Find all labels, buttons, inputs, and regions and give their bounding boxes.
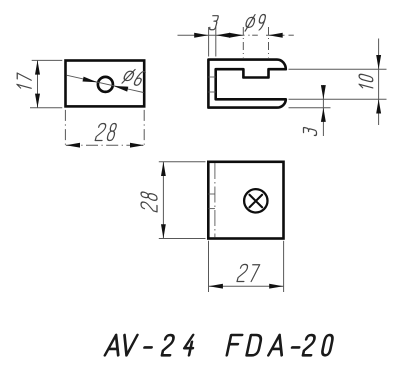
dim text 28 [95, 124, 117, 141]
extension line 28b bottom [159, 238, 206, 240]
dim text 17 [17, 73, 31, 91]
cross mark in circle [250, 195, 263, 208]
dimension line dot segment [248, 34, 249, 36]
leader line diameter 6 [67, 75, 144, 92]
fastening circle [244, 189, 267, 212]
dim text 3 top [209, 16, 219, 30]
extension line 28 left [64, 110, 66, 147]
arrow dia9 outside right [269, 33, 283, 38]
extension line 3b bottom [289, 107, 331, 109]
bend tick lower view3 [209, 208, 215, 210]
extension line 10 bottom [289, 98, 387, 100]
leader arrow left [83, 77, 98, 83]
arrow 17 up [35, 60, 40, 74]
extension line diameter 9 right [268, 27, 270, 58]
dimension line 27 [209, 285, 284, 287]
arrow 27 left [209, 284, 223, 289]
dimension line tail dash [289, 34, 294, 36]
dim text 3 right [303, 127, 316, 136]
arrow 28 left [66, 143, 80, 148]
dimension line right segment [266, 34, 285, 36]
dimension line 17 [37, 60, 39, 107]
arrow 27 right [269, 284, 283, 289]
dim text diameter 6 [121, 68, 146, 87]
arrow 3 outside right [216, 33, 230, 38]
bend tangent line lower [208, 91, 215, 93]
plate outline view 1 [66, 61, 145, 107]
dimension line 28b [162, 162, 164, 239]
arrow 28b up [161, 162, 166, 176]
arrow 10 outside bottom [376, 99, 381, 113]
dimension line 3 and dia9 main [178, 34, 245, 36]
title text AV-24 FDA-20 [105, 335, 334, 355]
bend tangent line upper [208, 76, 215, 78]
arrow 3b outside top [321, 85, 326, 99]
arrow 28 right [130, 143, 144, 148]
dim text diameter 9 [244, 15, 266, 31]
hole circle view 1 [98, 77, 113, 92]
extension line 28 right [143, 110, 145, 147]
dim text 28 left [141, 191, 157, 212]
leader arrow right [114, 86, 129, 92]
inner wall hidden line [214, 163, 216, 238]
bend tick upper view3 [209, 193, 215, 195]
arrow 3 outside left [194, 33, 208, 38]
arrow dia9 outside left [229, 33, 243, 38]
dimension line 28 [66, 144, 144, 146]
dimension line dash segment [252, 34, 258, 36]
extension line diameter 9 left [242, 27, 244, 58]
arrow 17 down [35, 94, 40, 108]
dimension line 3b [322, 85, 324, 136]
extension line 3 right [215, 27, 217, 57]
extension line 27 left [208, 241, 210, 292]
arrow 3b outside bottom [321, 108, 326, 122]
extension line 3 left [208, 27, 210, 57]
extension line 17 top [32, 59, 63, 61]
square outline view 3 [208, 162, 283, 239]
dim text 27 [237, 264, 260, 281]
arrow 10 outside top [376, 55, 381, 69]
dimension line 10 [378, 39, 380, 126]
extension line 17 bottom [30, 107, 62, 109]
extension line 27 right [283, 241, 285, 292]
arrow 28b down [161, 224, 166, 238]
fork clip outline view 2 [208, 60, 285, 108]
extension line 28b top [159, 161, 206, 163]
dim text 10 [359, 74, 373, 91]
extension line 10 top [289, 68, 387, 70]
